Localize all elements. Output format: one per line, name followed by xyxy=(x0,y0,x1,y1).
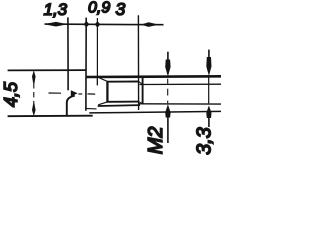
svg-text:3,3: 3,3 xyxy=(194,127,216,155)
thread end chamfer top xyxy=(139,82,143,85)
thread runout vertical xyxy=(96,78,98,85)
head left face upper xyxy=(67,70,69,90)
dot marker at extension E2 xyxy=(84,21,90,28)
svg-text:M2: M2 xyxy=(145,127,167,155)
M2 arrowhead bottom (pointing up) xyxy=(165,104,170,117)
head top edge + 4,5 top extension line xyxy=(8,69,86,71)
3,3 dimension line lower shaft xyxy=(208,117,210,128)
M2 dimension line lower shaft xyxy=(167,116,169,143)
3,3 dimension line upper shaft xyxy=(208,50,210,58)
thread runout bottom diagonal xyxy=(98,102,108,105)
thread root top line xyxy=(107,81,139,83)
svg-text:4,5: 4,5 xyxy=(1,81,21,107)
dot marker at extension E3 xyxy=(95,21,101,28)
stray short line below shank xyxy=(85,107,96,110)
tube left face xyxy=(142,77,144,104)
svg-text:3: 3 xyxy=(116,0,126,19)
shank outer bottom edge xyxy=(98,104,140,107)
tube bore top line xyxy=(140,83,222,85)
thread root bottom line xyxy=(107,101,139,103)
extension line E4 / thread end face xyxy=(137,15,139,110)
shank/tube outer top edge (thick) xyxy=(86,75,221,78)
svg-text:0,9: 0,9 xyxy=(88,0,110,17)
3,3 arrowhead bottom (pointing up) xyxy=(206,105,211,118)
tube bore bottom line xyxy=(139,103,221,105)
extension line E1 xyxy=(67,17,69,70)
arrowhead 1,3 left (filled, pointing right) xyxy=(47,22,68,27)
tube outer bottom edge xyxy=(89,111,221,113)
arrowhead 4,5 bottom (pointing down) xyxy=(32,104,36,117)
M2 arrowhead top (pointing down) xyxy=(165,60,170,77)
thread end chamfer bottom xyxy=(139,102,143,104)
svg-text:1,3: 1,3 xyxy=(44,0,68,19)
slot arrow on axis (filled, pointing right) xyxy=(71,90,78,96)
thread capsule left end xyxy=(106,81,108,102)
centerline dash mid xyxy=(78,93,82,95)
3,3 arrowhead top (pointing down) xyxy=(206,57,211,76)
arrowhead 3 right (filled, pointing left) xyxy=(141,22,156,27)
extension line E3 xyxy=(96,18,98,85)
dimension line top (1,3 / 0,9 / 3) xyxy=(45,23,164,26)
centerline dash left xyxy=(49,92,62,94)
M2 dimension dashes through part xyxy=(167,79,169,103)
extension line E2 / head right face xyxy=(85,18,87,111)
arrowhead 4,5 top (pointing up) xyxy=(32,70,36,83)
thread runout top diagonal xyxy=(100,78,108,82)
head left face lower with squiggle xyxy=(67,96,75,116)
head bottom edge + 4,5 bottom extension line xyxy=(8,115,93,118)
3,3 dimension line through part xyxy=(208,78,210,104)
dimension line 4,5 (vertical) xyxy=(33,83,35,104)
M2 dimension line upper shaft xyxy=(167,52,169,61)
centerline dash right xyxy=(88,93,96,95)
